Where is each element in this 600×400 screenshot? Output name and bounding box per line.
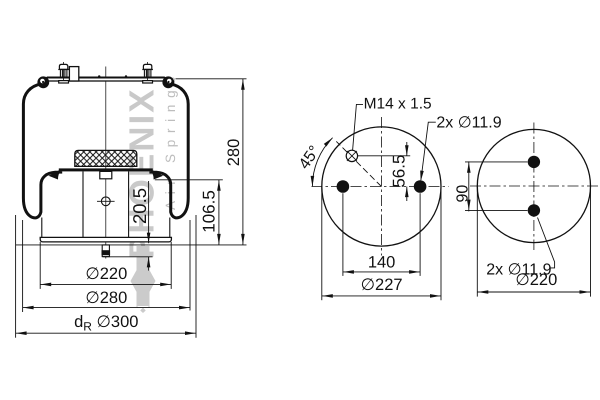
hole bottom (bottom view) [528, 204, 540, 216]
45 degree arc [296, 136, 334, 186]
horizontal centerline [470, 185, 600, 187]
dim 140 [343, 193, 420, 276]
bolt B2 (right) [142, 62, 153, 84]
svg-text:∅220: ∅220 [85, 265, 127, 283]
45 degree dashed line [336, 141, 381, 186]
piston flange [59, 168, 153, 173]
svg-text:∅227: ∅227 [361, 276, 403, 294]
svg-text:106.5: 106.5 [199, 190, 218, 233]
watermark PHOENIX logo [123, 70, 179, 313]
vertical centerline [533, 123, 535, 251]
circle outline [477, 129, 590, 242]
bottom plate [40, 237, 171, 242]
top extension line for 280 dim [176, 78, 247, 80]
label 2x dia 11.9 (top view) [419, 114, 502, 181]
piston skirt right edge [169, 218, 171, 238]
bolt B1 (left) [58, 62, 69, 84]
svg-text:20.5: 20.5 [129, 188, 150, 224]
hole left (top view) [337, 180, 350, 193]
bottom stud [102, 245, 111, 257]
dim 106.5 [155, 180, 223, 245]
svg-text:90: 90 [454, 185, 471, 203]
piston inner wall right [128, 171, 130, 237]
vertical centerline [380, 117, 382, 256]
dim 90 [454, 161, 527, 211]
bellows corner wedge left [49, 170, 61, 180]
dim dia 220 [40, 242, 171, 289]
centerline [105, 67, 107, 259]
dim 56.5 [358, 142, 410, 201]
hole top (bottom view) [528, 156, 540, 168]
top plate [47, 78, 165, 81]
notch under flange [100, 171, 112, 178]
label M14 x 1.5 [353, 96, 432, 151]
dim dia 280 [23, 220, 190, 312]
right bead curl [162, 76, 174, 88]
dim 20.5 [129, 181, 151, 271]
rubber bead on piston (crosshatched) [75, 150, 137, 166]
hole right (top view) [414, 180, 427, 193]
left bead curl [37, 76, 49, 88]
label 2x dia 11.9 (bottom view) [486, 218, 554, 279]
svg-text:140: 140 [368, 253, 396, 271]
air fitting M14 [346, 150, 357, 161]
piston inner wall left [82, 171, 84, 237]
dim dia 220 (bottom view) [477, 186, 590, 297]
stud extension line for 20.5 [103, 256, 153, 258]
svg-text:280: 280 [225, 139, 243, 167]
piston skirt left edge [41, 218, 43, 238]
fitting block beside bolt B1 [69, 67, 78, 81]
bellows left outline [23, 84, 58, 218]
bellows corner wedge right [151, 170, 163, 180]
dim 280 [225, 79, 245, 245]
svg-text:M14 x 1.5: M14 x 1.5 [364, 96, 432, 113]
svg-text:∅220: ∅220 [515, 271, 557, 289]
svg-text:∅280: ∅280 [85, 289, 127, 307]
svg-text:2x ∅11.9: 2x ∅11.9 [436, 114, 501, 131]
circle outline [322, 127, 441, 246]
dim dia 227 [322, 187, 441, 301]
bottom extension line [16, 244, 247, 246]
horizontal centerline [312, 186, 449, 188]
center mark on piston [97, 197, 115, 206]
dim dR dia 300 [16, 215, 196, 338]
svg-text:56.5: 56.5 [390, 155, 409, 188]
bellows right outline [153, 84, 188, 218]
